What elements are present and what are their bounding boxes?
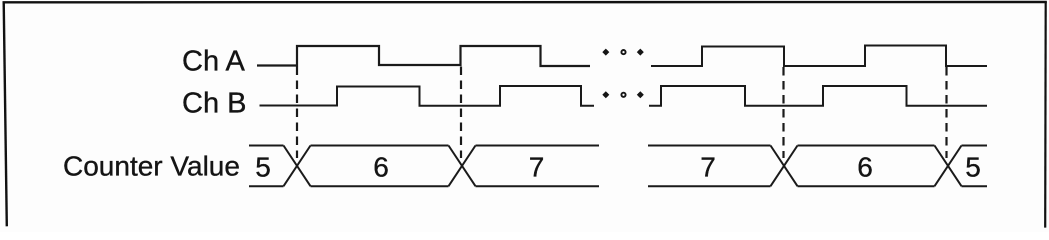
svg-text:5: 5 [965, 152, 981, 183]
bus crossover X4 (x=948) [935, 146, 962, 187]
bus crossover X3 (x=784) [771, 146, 798, 187]
svg-text:7: 7 [529, 152, 545, 183]
svg-text:6: 6 [857, 152, 873, 183]
dashed cursor line 1 (x=297) [296, 67, 298, 159]
bus crossover X1 (x=297) [284, 146, 311, 187]
svg-text:7: 7 [700, 152, 716, 183]
svg-text:Counter Value: Counter Value [63, 151, 240, 182]
border right [1044, 2, 1047, 228]
svg-text:5: 5 [255, 152, 271, 183]
counter bus top line segments [249, 145, 987, 147]
wire Ch B waveform right section [649, 86, 987, 106]
wire Ch B waveform left section [260, 86, 595, 106]
dashed cursor line 4 (x=946.5) [945, 67, 947, 158]
wire Ch A waveform right section [651, 46, 987, 67]
ellipsis dots Ch B [602, 91, 644, 98]
counter bus bottom line segments [249, 185, 987, 187]
bus crossover X2 (x=462) [449, 146, 476, 187]
svg-text:6: 6 [373, 152, 389, 183]
svg-text:Ch A: Ch A [182, 46, 246, 78]
ellipsis dots Ch A [602, 49, 644, 56]
border top [3, 1, 1047, 4]
dashed cursor line 2 (x=461.5) [460, 67, 462, 159]
border left [4, 2, 7, 227]
dashed cursor line 3 (x=783.5) [782, 67, 784, 158]
wire Ch A waveform left section [257, 46, 590, 66]
svg-text:Ch B: Ch B [182, 88, 246, 120]
